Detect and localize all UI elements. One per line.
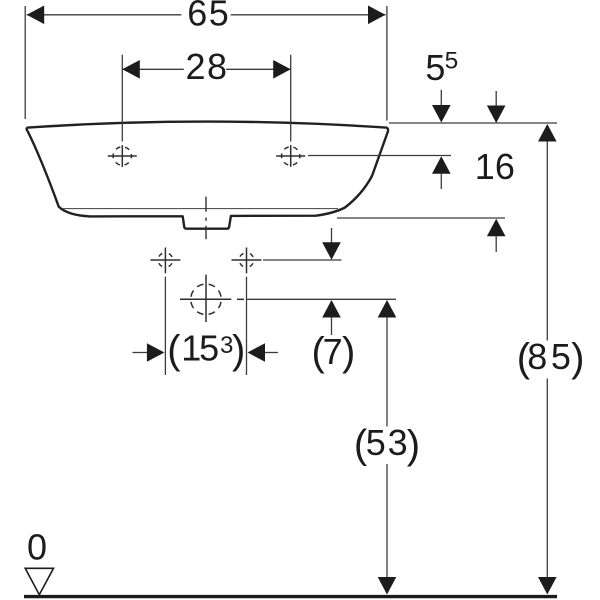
svg-text:5: 5 [425, 47, 445, 88]
svg-text:): ) [232, 328, 245, 372]
svg-text:65: 65 [187, 0, 230, 33]
svg-text:0: 0 [27, 527, 47, 568]
svg-text:7: 7 [323, 331, 343, 372]
svg-text:16: 16 [475, 146, 515, 187]
svg-text:85: 85 [527, 336, 574, 377]
svg-text:): ) [571, 336, 584, 380]
svg-text:): ) [407, 423, 420, 467]
svg-text:53: 53 [366, 422, 410, 463]
svg-text:(: ( [167, 328, 181, 372]
svg-text:): ) [342, 330, 355, 374]
svg-text:28: 28 [186, 46, 229, 87]
svg-text:15: 15 [181, 328, 218, 369]
svg-text:5: 5 [445, 47, 459, 74]
